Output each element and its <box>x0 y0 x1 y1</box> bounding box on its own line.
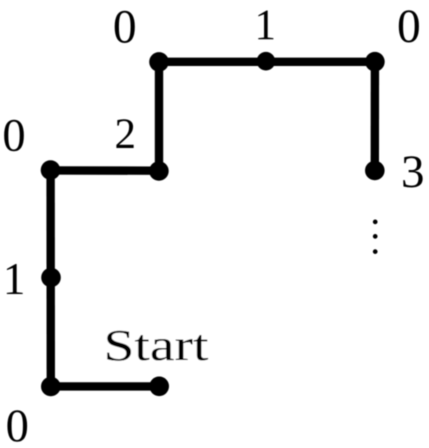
svg-text:0: 0 <box>2 110 25 161</box>
svg-text:2: 2 <box>115 111 137 158</box>
svg-text:3: 3 <box>401 146 425 198</box>
svg-text:1: 1 <box>255 2 277 49</box>
svg-text:Start: Start <box>104 321 209 370</box>
svg-text:0: 0 <box>6 401 29 448</box>
svg-text:1: 1 <box>3 254 26 304</box>
svg-text:0: 0 <box>397 1 421 53</box>
svg-text:0: 0 <box>113 1 137 53</box>
